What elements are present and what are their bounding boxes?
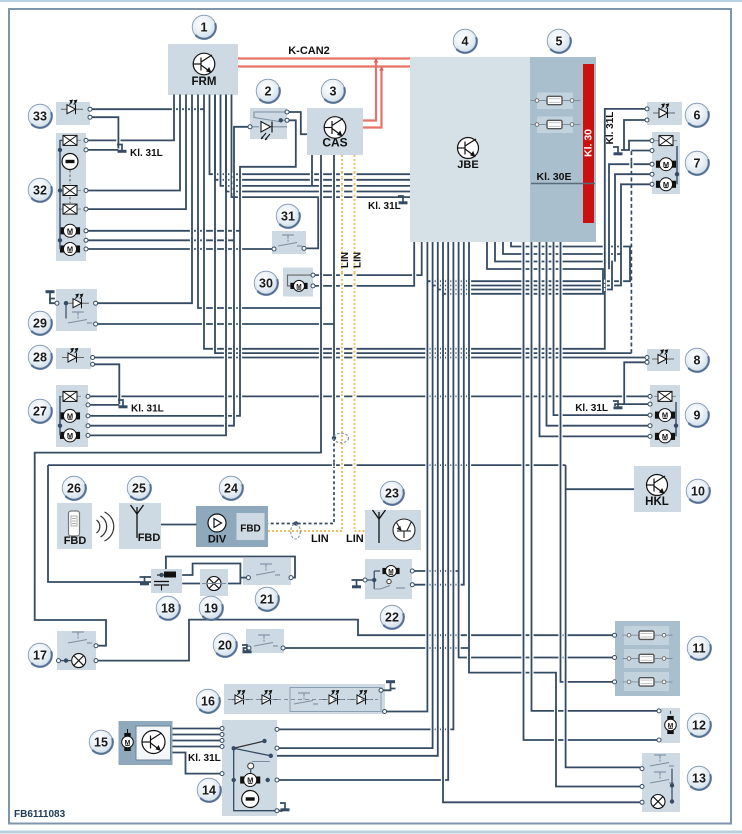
motor symbol box30 bbox=[291, 280, 307, 291]
wire FRM pin6 down to box6 loop bbox=[204, 95, 647, 349]
svg-text:Kl. 30E: Kl. 30E bbox=[536, 171, 571, 183]
wire box8 pin2 to box9 KL31L node bbox=[624, 362, 650, 404]
motor symbol box32 m2 bbox=[60, 243, 79, 256]
node 24 callout bbox=[219, 476, 243, 500]
wire box27 motor-mid to box2 left bbox=[88, 127, 250, 426]
JBE staircase wire 1 bbox=[427, 242, 630, 281]
switch box 21 bbox=[243, 558, 291, 585]
node 18 callout bbox=[156, 596, 180, 620]
radio waves bbox=[97, 512, 114, 541]
LIN bus wire 1 bbox=[268, 155, 342, 531]
svg-text:29: 29 bbox=[33, 316, 47, 330]
actuator box 9 bbox=[650, 385, 680, 447]
ground box22 bbox=[352, 580, 362, 587]
svg-text:19: 19 bbox=[204, 601, 218, 615]
motor symbol box7 m1 bbox=[656, 158, 675, 171]
box17 internal bbox=[59, 660, 72, 662]
box16 pins bbox=[379, 688, 383, 692]
svg-text:K-CAN2: K-CAN2 bbox=[288, 45, 330, 57]
dashed link box32 bbox=[69, 170, 71, 184]
motor symbol box27 m1 bbox=[60, 409, 79, 422]
ECU symbol FRM bbox=[193, 53, 215, 75]
box21 pins bbox=[246, 576, 250, 580]
ground JBE KL31L bbox=[398, 196, 408, 203]
node 22 callout bbox=[380, 605, 404, 629]
box7 link rail bbox=[676, 146, 678, 184]
blower box 15 outer bbox=[119, 721, 173, 765]
box13 pins bbox=[640, 767, 644, 771]
wire box33 to KL31L ground bbox=[90, 117, 118, 148]
pins box28 bbox=[91, 356, 95, 360]
svg-text:HKL: HKL bbox=[645, 496, 669, 508]
box9 link rail bbox=[675, 402, 677, 436]
svg-text:13: 13 bbox=[692, 771, 706, 785]
box22 motor bbox=[383, 566, 399, 577]
motor symbol box32 m1 bbox=[60, 224, 79, 237]
actuator box 32 bbox=[56, 133, 86, 261]
LED symbol box6 bbox=[653, 104, 675, 118]
box7 pins bbox=[650, 139, 654, 143]
wire box16 ground stub bbox=[381, 689, 391, 691]
JBE staircase wire 3 bbox=[438, 242, 612, 290]
svg-text:23: 23 bbox=[385, 486, 399, 500]
node 19 callout bbox=[199, 596, 223, 620]
svg-text:Kl. 31L: Kl. 31L bbox=[131, 404, 164, 415]
box16 LED a bbox=[229, 691, 251, 705]
box17 switch bbox=[68, 632, 92, 643]
box30 internal loop bbox=[288, 275, 314, 286]
node 26 callout bbox=[62, 476, 86, 500]
heater symbol box9 bbox=[654, 391, 676, 401]
box16 LED d bbox=[351, 691, 373, 705]
svg-text:FBD: FBD bbox=[64, 535, 87, 547]
box22 pins bbox=[363, 578, 367, 582]
wire JBE to box14 right b bbox=[277, 242, 433, 748]
motor symbol box9 m1 bbox=[655, 409, 674, 422]
K-CAN2 junction arrows bbox=[374, 59, 385, 71]
ECU symbol CAS bbox=[324, 117, 346, 139]
wire box5 to box9 motor1 bbox=[554, 242, 650, 415]
wire box2 to CAS bbox=[287, 112, 307, 134]
svg-text:LIN: LIN bbox=[311, 533, 329, 545]
pins box8 bbox=[645, 356, 649, 360]
node 17 callout bbox=[28, 643, 52, 667]
regulator symbol box15 bbox=[142, 731, 165, 754]
svg-text:Kl. 31L: Kl. 31L bbox=[575, 403, 608, 414]
connector ellipse on LIN horizontal bbox=[291, 524, 301, 539]
wire box15 to box14 w1 bbox=[173, 728, 223, 730]
svg-text:3: 3 bbox=[330, 84, 337, 98]
ground KL31L left mid bbox=[118, 400, 128, 407]
wire box7 pin4 riser bbox=[615, 174, 652, 261]
wire branch to box22 motor bbox=[412, 570, 458, 572]
box13 switch2 bbox=[650, 772, 674, 783]
svg-text:24: 24 bbox=[224, 481, 238, 495]
svg-text:28: 28 bbox=[33, 350, 47, 364]
svg-text:8: 8 bbox=[694, 353, 701, 367]
lamp-switch box 29 bbox=[56, 289, 97, 331]
wire JBE to box16 feed bbox=[385, 242, 428, 712]
svg-text:15: 15 bbox=[94, 735, 108, 749]
ECU box U4 JBE bbox=[410, 57, 530, 242]
svg-text:FBD: FBD bbox=[138, 532, 161, 544]
wire box5 to box11 fuse3 bbox=[561, 242, 615, 682]
node 28 callout bbox=[28, 345, 52, 369]
motor symbol box7 m2 bbox=[656, 178, 675, 191]
switch-lamp box 17 bbox=[57, 631, 96, 670]
wire box27 motor2 to FRM bbox=[88, 95, 226, 436]
box29 pins bbox=[55, 301, 59, 305]
relay box 14 bbox=[222, 720, 277, 816]
junction dot dashed wire start bbox=[332, 436, 336, 440]
wire KL31L ground stub right bbox=[615, 404, 624, 406]
svg-text:5: 5 bbox=[556, 34, 563, 48]
fuse carrier strip F4 bbox=[624, 649, 669, 668]
node 32 callout bbox=[28, 178, 52, 202]
switch symbol box21 bbox=[256, 564, 280, 575]
wire JBE to box11 fuse2 bbox=[459, 242, 615, 658]
wire box7 pin2 stub bbox=[631, 150, 652, 152]
box26 key fob symbol bbox=[69, 511, 80, 536]
FRM-JBE bus wire 3 bbox=[221, 95, 411, 186]
wire box27 heater to box9 heater long rail bbox=[88, 395, 650, 397]
svg-text:17: 17 bbox=[33, 648, 47, 662]
wire box15 to box14 w2 bbox=[173, 734, 223, 736]
svg-text:4: 4 bbox=[462, 34, 469, 48]
wire FRM to box32 heater2 bbox=[86, 95, 180, 191]
box16 LED c bbox=[323, 691, 345, 705]
node 4 callout bbox=[453, 29, 477, 53]
box22 internals bbox=[365, 579, 374, 581]
wire box32 pin2 to KL31L ground bbox=[86, 149, 118, 151]
box32 pins bbox=[84, 138, 88, 142]
svg-text:20: 20 bbox=[218, 638, 232, 652]
wire CAS pin1 to bus bbox=[311, 155, 313, 186]
fuse symbol F2 box5 bbox=[531, 120, 581, 128]
node 12 callout bbox=[687, 713, 711, 737]
svg-text:27: 27 bbox=[33, 404, 47, 418]
page top edge strip bbox=[0, 0, 742, 2]
node 5 callout bbox=[547, 29, 571, 53]
heater symbol box7 bbox=[655, 136, 677, 146]
node 6 callout bbox=[685, 103, 709, 127]
fuse symbol box11 bottom bbox=[623, 678, 673, 686]
node 10 callout bbox=[686, 479, 710, 503]
motor symbol box9 m2 bbox=[655, 430, 674, 443]
fuse symbol box11 mid bbox=[623, 654, 673, 662]
box17 pins bbox=[57, 659, 61, 663]
K-CAN2 bus wire high bbox=[238, 57, 410, 59]
svg-text:FRM: FRM bbox=[192, 76, 217, 88]
svg-text:26: 26 bbox=[67, 481, 81, 495]
ECU box U10 HKL bbox=[634, 466, 681, 512]
motor-switch box 22 bbox=[365, 559, 412, 599]
ECU symbol JBE bbox=[458, 138, 479, 159]
svg-text:LIN: LIN bbox=[340, 252, 351, 268]
ground box20 bbox=[242, 645, 252, 652]
box19 line bbox=[202, 583, 226, 585]
dashed link box32 b bbox=[69, 197, 71, 203]
switch-lamp box 13 bbox=[642, 753, 680, 812]
wire FRM to box29 pin1 bbox=[97, 95, 192, 304]
wire box32 fuse to FRM bbox=[86, 95, 174, 141]
box27 pins bbox=[86, 394, 90, 398]
wire box15 to box14 w3 bbox=[173, 740, 223, 742]
antenna symbol box25 bbox=[131, 505, 144, 538]
node 14 callout bbox=[197, 778, 221, 802]
heater symbol box32 f1 bbox=[59, 135, 81, 145]
node 13 callout bbox=[687, 766, 711, 790]
wire box31 to bus riser bbox=[304, 197, 318, 248]
svg-text:16: 16 bbox=[201, 694, 215, 708]
box12 pins bbox=[657, 709, 661, 713]
wire box32 motor1 east bbox=[86, 230, 240, 232]
wire box20 ground stub bbox=[244, 648, 249, 651]
box15 link bbox=[127, 729, 129, 733]
box16 LED b bbox=[256, 691, 278, 705]
wire box20 east to rail bbox=[283, 647, 469, 649]
antenna box 25 FBD bbox=[119, 503, 161, 549]
wire box28 to box8 long rail bbox=[93, 357, 647, 359]
svg-text:31: 31 bbox=[281, 209, 295, 223]
box2 pins bbox=[248, 125, 252, 129]
lamp box 8 bbox=[647, 349, 680, 371]
LED symbol box29 bbox=[67, 294, 89, 308]
node 25 callout bbox=[127, 476, 151, 500]
JBE staircase wire 2 bbox=[433, 242, 621, 286]
actuator box 27 bbox=[56, 385, 88, 447]
wire JBE to box14 right a bbox=[277, 242, 453, 729]
actuator box 7 bbox=[652, 132, 680, 194]
motor box 30 bbox=[283, 268, 313, 297]
node 1 callout bbox=[192, 15, 216, 39]
crossing gaps bbox=[213, 173, 217, 176]
box14 minus bbox=[242, 791, 259, 808]
wire box32 motor2 to box31 bbox=[86, 248, 274, 250]
fuse carrier strip F3 bbox=[624, 626, 669, 645]
box18 internals bbox=[164, 572, 176, 578]
svg-text:11: 11 bbox=[692, 641, 705, 655]
wire rail465 down to box18 bbox=[48, 465, 151, 582]
box9 pins bbox=[648, 394, 652, 398]
wire box18 top loop to box21 right bbox=[166, 557, 295, 578]
wire CAS long west to box17 bbox=[35, 155, 321, 646]
box14 internals bbox=[234, 748, 277, 810]
ground KL31L left upper bbox=[117, 145, 127, 152]
LED symbol box8 bbox=[652, 350, 674, 364]
node 33 callout bbox=[28, 104, 52, 128]
wire box7 pin5 riser bbox=[621, 184, 652, 253]
svg-text:Kl. 31L: Kl. 31L bbox=[605, 112, 616, 145]
wire box5 to box9 motor2 bbox=[540, 242, 650, 436]
svg-text:21: 21 bbox=[260, 592, 274, 606]
heater symbol box27 bbox=[59, 391, 81, 401]
node 3 callout bbox=[321, 79, 345, 103]
box15 motor bbox=[122, 733, 134, 750]
motor symbol box27 m2 bbox=[60, 429, 79, 442]
DIV symbol box24 bbox=[208, 514, 226, 532]
switch box 31 bbox=[272, 231, 306, 254]
pins box6 bbox=[645, 107, 649, 111]
wire FRM rail308 to CAS riser bbox=[198, 95, 321, 309]
wire JBE to box14 motor line bbox=[277, 242, 448, 780]
ECU box U3 CAS bbox=[307, 108, 363, 155]
node 16 callout bbox=[196, 689, 220, 713]
svg-text:9: 9 bbox=[694, 408, 701, 422]
wire JBE rail to box13 pin2 bbox=[469, 242, 642, 787]
node 2 callout bbox=[256, 79, 280, 103]
node 27 callout bbox=[28, 399, 52, 423]
node 31 callout bbox=[276, 204, 300, 228]
lamp box 19 bbox=[200, 569, 228, 596]
svg-text:7: 7 bbox=[694, 156, 701, 170]
wire JBE to box14 right c bbox=[277, 242, 438, 756]
junction dot dashed wire mid bbox=[294, 521, 298, 525]
wire box27 pin2 to ground 2 bbox=[88, 404, 119, 406]
FRM-JBE bus wire 5 bbox=[232, 95, 411, 198]
box14 right pins bbox=[275, 727, 279, 731]
node 9 callout bbox=[685, 403, 709, 427]
wire JBE to box22 switch bbox=[412, 242, 464, 585]
wire box29 ground stub bbox=[50, 298, 57, 304]
fuse carrier strip F5 bbox=[624, 672, 669, 691]
wire box15 to box14 pin5 bbox=[173, 753, 223, 774]
svg-text:32: 32 bbox=[33, 183, 47, 197]
remote key box 26 FBD bbox=[57, 503, 92, 549]
box2 internals bbox=[250, 112, 287, 127]
box14 motor bbox=[241, 774, 260, 787]
wire box15 to box14 w4 bbox=[173, 746, 223, 748]
box27 left rail bbox=[59, 396, 61, 435]
wire JBE to box30 pin2 bbox=[313, 242, 414, 286]
minus symbol box32 bbox=[62, 154, 78, 170]
box14 pins bbox=[220, 727, 224, 731]
wire box22 ground stub bbox=[357, 579, 366, 581]
power distribution box 5 bbox=[530, 57, 596, 242]
svg-text:LIN: LIN bbox=[346, 533, 364, 545]
wire JBE to box13 lamp bbox=[443, 242, 642, 802]
box29 internals bbox=[65, 303, 67, 318]
box13 lamp bbox=[651, 795, 665, 809]
box13 internal rail bbox=[671, 769, 673, 802]
relay box 18 bbox=[151, 569, 182, 593]
wire box6 pin2 to ground stub bbox=[624, 120, 647, 150]
svg-text:30: 30 bbox=[259, 276, 273, 290]
fuse symbol box11 top bbox=[623, 631, 673, 639]
wire rail465 down to box13 pin1 bbox=[566, 465, 642, 767]
KL.30 red bus bar bbox=[583, 64, 594, 223]
svg-text:FB6111083: FB6111083 bbox=[14, 809, 66, 820]
pins box11 bbox=[613, 633, 617, 637]
page bottom edge strip bbox=[0, 831, 742, 834]
heater symbol box32 h3 bbox=[59, 204, 81, 214]
wire FRM rail353 east bbox=[215, 95, 631, 354]
LIN bus wire 2 bbox=[355, 155, 366, 531]
wire box25 to box24 bbox=[161, 524, 197, 526]
wire box7 fuse to KL31L ground bbox=[621, 141, 652, 150]
box32 left rail bbox=[59, 140, 61, 249]
svg-text:Kl. 31L: Kl. 31L bbox=[368, 201, 401, 212]
fuse carrier strip F2 bbox=[537, 117, 573, 134]
wire box5 to box12 pin2 bbox=[524, 242, 661, 740]
LED symbol box28 bbox=[62, 349, 84, 363]
pins box33 bbox=[88, 107, 92, 111]
box16 switch bbox=[294, 693, 318, 704]
diversity box 24 DIV bbox=[196, 506, 268, 547]
wire box7 pin3 riser bbox=[609, 164, 652, 269]
fuse symbol F1 box5 bbox=[531, 96, 581, 104]
svg-text:Kl. 31L: Kl. 31L bbox=[188, 753, 221, 764]
wire box19 east stub bbox=[228, 578, 240, 584]
wire box18 to box19 bbox=[182, 583, 200, 585]
lamp cluster box 16 inner bbox=[290, 688, 381, 712]
dashed wire to box24 bbox=[268, 438, 334, 524]
node 23 callout bbox=[380, 481, 404, 505]
svg-text:6: 6 bbox=[694, 108, 701, 122]
FRM-JBE bus wire 1 bbox=[210, 95, 411, 175]
node 20 callout bbox=[213, 633, 237, 657]
wire box29 pin2 east rail bbox=[97, 323, 334, 325]
node 21 callout bbox=[255, 587, 279, 611]
antenna amp box 23 bbox=[365, 510, 421, 550]
svg-text:25: 25 bbox=[132, 481, 146, 495]
wire box27 motor1 to box2 bbox=[88, 120, 296, 416]
switch symbol box20 bbox=[254, 635, 278, 646]
box20 pins bbox=[247, 646, 251, 650]
ground box14 bbox=[280, 803, 290, 810]
wire box5 to box9 mid bbox=[547, 242, 650, 426]
lamp box 28 bbox=[56, 348, 91, 369]
FRM-JBE bus wire 4 bbox=[226, 95, 410, 192]
lamp cluster box 16 bbox=[224, 684, 385, 714]
fuse box 11 bbox=[615, 621, 680, 696]
JBE staircase wire 4 bbox=[443, 242, 603, 294]
ground box9 area KL31L bbox=[613, 401, 623, 408]
node 8 callout bbox=[685, 348, 709, 372]
wire branch to HKL bbox=[566, 488, 634, 490]
svg-text:Kl. 30: Kl. 30 bbox=[583, 129, 595, 157]
box 24 FBD sub-box bbox=[237, 513, 265, 540]
wire FRM to box32 heater3 bbox=[86, 95, 186, 210]
svg-text:JBE: JBE bbox=[457, 159, 478, 171]
K-CAN2 bus wire low bbox=[238, 65, 410, 67]
ECU box U1 FRM bbox=[168, 44, 238, 95]
svg-text:CAS: CAS bbox=[322, 136, 347, 150]
ground box7 area bbox=[613, 147, 623, 154]
svg-text:LIN: LIN bbox=[353, 252, 364, 268]
node 29 callout bbox=[28, 311, 52, 335]
box13 switch1 bbox=[650, 755, 674, 766]
antenna symbol box23 bbox=[373, 510, 386, 543]
K-CAN2 stub to CAS high bbox=[363, 59, 376, 121]
transistor symbol box23 bbox=[393, 519, 415, 541]
wire box14 ground stub bbox=[277, 811, 282, 812]
wire box28 to KL31L ground 2 bbox=[93, 364, 120, 404]
ground box16 bbox=[386, 682, 396, 689]
switch symbol box31 bbox=[278, 235, 302, 246]
svg-text:12: 12 bbox=[692, 718, 706, 732]
node 7 callout bbox=[685, 151, 709, 175]
blower box 15 inner bbox=[136, 726, 171, 760]
svg-text:10: 10 bbox=[691, 484, 705, 498]
ground box29 bbox=[46, 292, 56, 299]
node 30 callout bbox=[254, 271, 278, 295]
heater symbol box32 h2 bbox=[59, 186, 81, 196]
box19 lamp bbox=[207, 577, 221, 591]
svg-text:22: 22 bbox=[385, 610, 399, 624]
wire JBE to box30 pin1 bbox=[313, 242, 422, 275]
svg-text:FBD: FBD bbox=[240, 524, 261, 535]
